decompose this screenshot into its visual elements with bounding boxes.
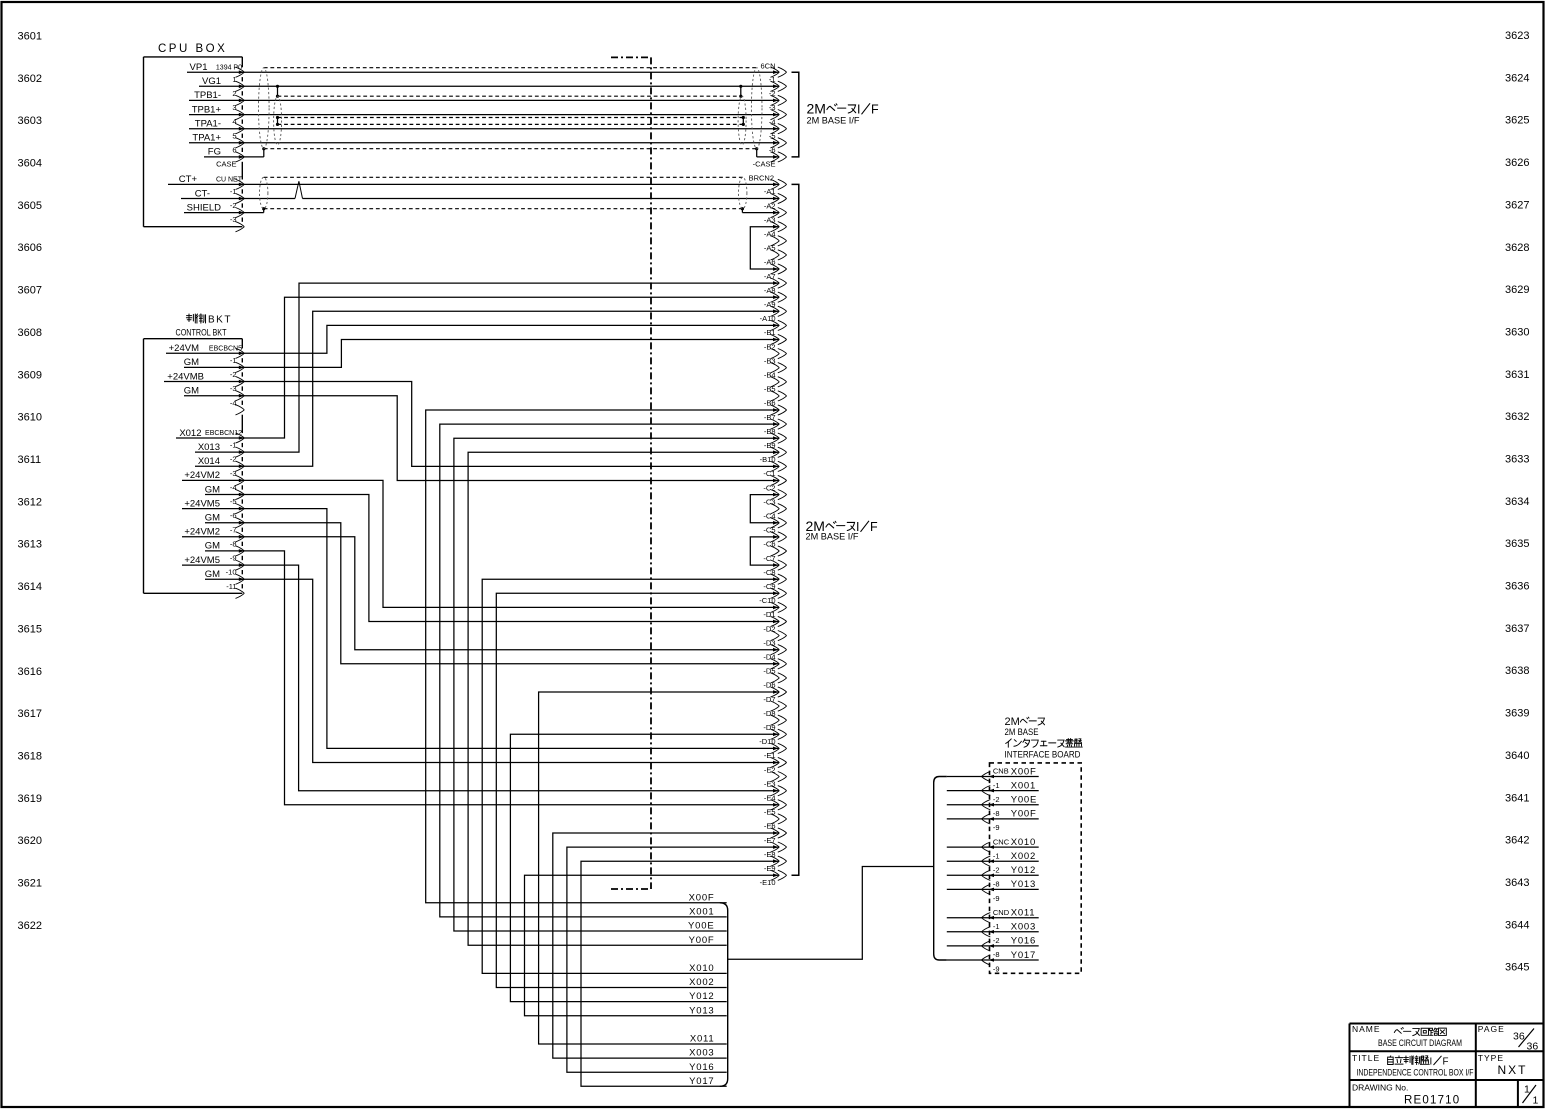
- svg-text:3636: 3636: [1505, 581, 1529, 593]
- svg-text:2M BASE I/F: 2M BASE I/F: [806, 532, 859, 543]
- svg-text:GM: GM: [205, 541, 220, 552]
- svg-text:-1: -1: [769, 75, 776, 84]
- svg-text:GM: GM: [184, 357, 199, 368]
- svg-text:3628: 3628: [1505, 242, 1529, 254]
- svg-text:+24VM2: +24VM2: [184, 527, 220, 538]
- svg-text:X011: X011: [1011, 908, 1036, 919]
- svg-text:3625: 3625: [1505, 115, 1529, 127]
- svg-text:2M: 2M: [807, 101, 826, 117]
- svg-text:-CASE: -CASE: [753, 160, 776, 169]
- svg-text:CT+: CT+: [179, 174, 198, 185]
- svg-text:1: 1: [232, 75, 236, 84]
- svg-text:3619: 3619: [18, 793, 42, 805]
- svg-text:Y016: Y016: [689, 1062, 714, 1073]
- svg-text:3639: 3639: [1505, 708, 1529, 720]
- svg-text:3611: 3611: [18, 454, 42, 466]
- svg-text:3604: 3604: [18, 158, 42, 170]
- svg-text:TPB1-: TPB1-: [194, 90, 221, 101]
- svg-text:3608: 3608: [18, 327, 42, 339]
- svg-text:X001: X001: [689, 907, 714, 918]
- svg-text:INDEPENDENCE CONTROL BOX I/F: INDEPENDENCE CONTROL BOX I/F: [1357, 1068, 1474, 1078]
- svg-text:2: 2: [232, 89, 236, 98]
- svg-text:FG: FG: [208, 147, 221, 158]
- svg-text:3612: 3612: [18, 496, 42, 508]
- svg-text:PAGE: PAGE: [1478, 1024, 1505, 1034]
- svg-text:-9: -9: [230, 554, 237, 563]
- svg-text:-8: -8: [993, 809, 1000, 818]
- svg-text:-E10: -E10: [760, 878, 776, 887]
- svg-text:-4: -4: [769, 117, 776, 126]
- svg-text:NXT: NXT: [1498, 1063, 1528, 1077]
- svg-text:3641: 3641: [1505, 792, 1529, 804]
- svg-text:GM: GM: [184, 386, 199, 397]
- svg-text:-1: -1: [993, 922, 1000, 931]
- svg-text:X011: X011: [690, 1034, 715, 1045]
- svg-text:I: I: [857, 103, 860, 117]
- svg-text:RE01710: RE01710: [1404, 1095, 1460, 1107]
- svg-text:-5: -5: [769, 132, 776, 141]
- svg-text:X003: X003: [1011, 922, 1036, 933]
- svg-text:CNB: CNB: [993, 767, 1009, 776]
- svg-text:Y016: Y016: [1011, 936, 1036, 947]
- svg-text:INTERFACE BOARD: INTERFACE BOARD: [1005, 750, 1081, 760]
- svg-text:-10: -10: [226, 568, 237, 577]
- svg-text:-9: -9: [993, 894, 1000, 903]
- svg-text:-3: -3: [769, 103, 776, 112]
- svg-text:CONTROL BKT: CONTROL BKT: [176, 327, 227, 337]
- svg-text:-6: -6: [230, 511, 237, 520]
- svg-text:CU NET: CU NET: [216, 177, 243, 184]
- svg-text:-3: -3: [230, 469, 237, 478]
- svg-text:3629: 3629: [1505, 284, 1529, 296]
- svg-text:I: I: [1430, 1057, 1433, 1068]
- svg-text:3621: 3621: [18, 878, 42, 890]
- svg-text:3620: 3620: [18, 835, 42, 847]
- svg-text:3609: 3609: [18, 369, 42, 381]
- svg-text:3614: 3614: [18, 581, 42, 593]
- svg-text:-2: -2: [230, 455, 237, 464]
- svg-text:3645: 3645: [1505, 962, 1529, 974]
- svg-text:X010: X010: [1011, 837, 1036, 848]
- svg-text:X002: X002: [689, 977, 714, 988]
- svg-text:BKT: BKT: [208, 315, 232, 326]
- svg-text:-8: -8: [993, 950, 1000, 959]
- svg-text:F: F: [870, 520, 878, 534]
- svg-text:Y012: Y012: [689, 991, 714, 1002]
- svg-text:3637: 3637: [1505, 623, 1529, 635]
- svg-text:+24VM: +24VM: [169, 343, 199, 354]
- svg-text:-9: -9: [993, 823, 1000, 832]
- svg-text:3635: 3635: [1505, 538, 1529, 550]
- svg-text:-11: -11: [226, 582, 236, 591]
- svg-text:GM: GM: [205, 569, 220, 580]
- svg-text:2M BASE I/F: 2M BASE I/F: [807, 116, 860, 127]
- svg-text:3607: 3607: [18, 285, 42, 297]
- svg-text:CND: CND: [993, 908, 1010, 917]
- svg-text:+24VMB: +24VMB: [167, 371, 204, 382]
- svg-text:3630: 3630: [1505, 326, 1529, 338]
- svg-text:+24VM5: +24VM5: [184, 555, 220, 566]
- svg-text:-6: -6: [769, 146, 776, 155]
- svg-text:TPA1+: TPA1+: [192, 133, 221, 144]
- svg-text:F: F: [871, 103, 879, 117]
- svg-text:BRCN2: BRCN2: [749, 174, 774, 183]
- svg-text:3605: 3605: [18, 200, 42, 212]
- svg-text:Y00E: Y00E: [1011, 795, 1037, 806]
- svg-text:-4: -4: [230, 398, 237, 407]
- svg-text:3624: 3624: [1505, 72, 1529, 84]
- svg-text:CNC: CNC: [993, 837, 1010, 846]
- svg-text:3627: 3627: [1505, 199, 1529, 211]
- svg-text:36: 36: [1527, 1041, 1539, 1053]
- svg-text:6CN: 6CN: [760, 62, 775, 71]
- svg-text:3622: 3622: [18, 920, 42, 932]
- svg-text:-8: -8: [993, 880, 1000, 889]
- svg-text:-1: -1: [230, 441, 237, 450]
- svg-text:X00F: X00F: [689, 892, 715, 903]
- svg-text:3633: 3633: [1505, 454, 1529, 466]
- svg-text:-9: -9: [993, 964, 1000, 973]
- svg-text:VP1: VP1: [190, 62, 208, 73]
- svg-text:X00F: X00F: [1011, 766, 1037, 777]
- svg-text:-1: -1: [993, 851, 1000, 860]
- svg-text:+24VM5: +24VM5: [184, 498, 220, 509]
- svg-text:3631: 3631: [1505, 369, 1529, 381]
- svg-text:-2: -2: [769, 89, 776, 98]
- svg-text:F: F: [1443, 1057, 1449, 1068]
- svg-text:Y017: Y017: [689, 1076, 714, 1087]
- svg-text:X012: X012: [179, 428, 201, 439]
- svg-text:Y00F: Y00F: [1011, 809, 1037, 820]
- svg-text:3644: 3644: [1505, 919, 1529, 931]
- svg-text:-1: -1: [993, 781, 1000, 790]
- svg-text:Y012: Y012: [1011, 865, 1036, 876]
- svg-text:TPB1+: TPB1+: [192, 104, 222, 115]
- svg-text:3643: 3643: [1505, 877, 1529, 889]
- svg-text:X001: X001: [1011, 780, 1036, 791]
- svg-text:3606: 3606: [18, 242, 42, 254]
- svg-text:-3: -3: [230, 384, 237, 393]
- svg-text:3602: 3602: [18, 73, 42, 85]
- svg-text:X013: X013: [198, 442, 220, 453]
- svg-text:GM: GM: [205, 484, 220, 495]
- svg-text:3642: 3642: [1505, 835, 1529, 847]
- svg-text:TITLE: TITLE: [1352, 1053, 1380, 1063]
- svg-text:-8: -8: [230, 539, 237, 548]
- svg-text:-1: -1: [230, 356, 237, 365]
- svg-text:CT-: CT-: [195, 188, 210, 199]
- svg-text:3623: 3623: [1505, 30, 1529, 42]
- svg-text:-4: -4: [230, 483, 237, 492]
- svg-text:SHIELD: SHIELD: [187, 202, 221, 213]
- svg-text:GM: GM: [205, 513, 220, 524]
- svg-text:X014: X014: [198, 456, 220, 467]
- svg-text:-3: -3: [230, 215, 237, 224]
- svg-text:1: 1: [1533, 1095, 1539, 1107]
- svg-text:2M BASE: 2M BASE: [1005, 727, 1039, 737]
- svg-text:3610: 3610: [18, 412, 42, 424]
- svg-text:DRAWING No.: DRAWING No.: [1352, 1083, 1408, 1093]
- svg-text:3618: 3618: [18, 751, 42, 763]
- svg-text:CASE: CASE: [216, 160, 236, 169]
- svg-text:BASE CIRCUIT DIAGRAM: BASE CIRCUIT DIAGRAM: [1378, 1038, 1462, 1048]
- svg-text:+24VM2: +24VM2: [184, 470, 220, 481]
- svg-text:Y00E: Y00E: [688, 921, 714, 932]
- svg-text:NAME: NAME: [1352, 1024, 1381, 1034]
- svg-text:Y017: Y017: [1011, 950, 1036, 961]
- svg-text:4: 4: [232, 117, 236, 126]
- svg-text:-1: -1: [230, 187, 237, 196]
- svg-text:Y00F: Y00F: [689, 935, 715, 946]
- svg-text:-2: -2: [993, 866, 1000, 875]
- svg-text:-2: -2: [230, 201, 237, 210]
- svg-text:-2: -2: [230, 370, 237, 379]
- svg-text:Y013: Y013: [1011, 879, 1036, 890]
- svg-text:3626: 3626: [1505, 157, 1529, 169]
- svg-text:X002: X002: [1011, 851, 1036, 862]
- svg-text:X010: X010: [689, 963, 714, 974]
- svg-text:3617: 3617: [18, 708, 42, 720]
- svg-text:5: 5: [232, 131, 236, 140]
- svg-text:3616: 3616: [18, 666, 42, 678]
- svg-text:TYPE: TYPE: [1478, 1053, 1504, 1063]
- svg-text:-2: -2: [993, 795, 1000, 804]
- svg-text:3603: 3603: [18, 115, 42, 127]
- svg-text:3601: 3601: [18, 31, 42, 43]
- svg-text:-7: -7: [230, 525, 237, 534]
- svg-text:VG1: VG1: [202, 76, 221, 87]
- svg-text:3634: 3634: [1505, 496, 1529, 508]
- svg-text:Y013: Y013: [689, 1005, 714, 1016]
- svg-text:3615: 3615: [18, 623, 42, 635]
- svg-text:3638: 3638: [1505, 665, 1529, 677]
- svg-text:3640: 3640: [1505, 750, 1529, 762]
- svg-text:3: 3: [232, 103, 236, 112]
- svg-text:CPU BOX: CPU BOX: [158, 43, 227, 55]
- svg-text:3632: 3632: [1505, 411, 1529, 423]
- svg-text:X003: X003: [689, 1048, 714, 1059]
- svg-text:-2: -2: [993, 936, 1000, 945]
- svg-text:-5: -5: [230, 497, 237, 506]
- svg-text:3613: 3613: [18, 539, 42, 551]
- svg-text:6: 6: [232, 145, 236, 154]
- svg-text:TPA1-: TPA1-: [195, 119, 221, 130]
